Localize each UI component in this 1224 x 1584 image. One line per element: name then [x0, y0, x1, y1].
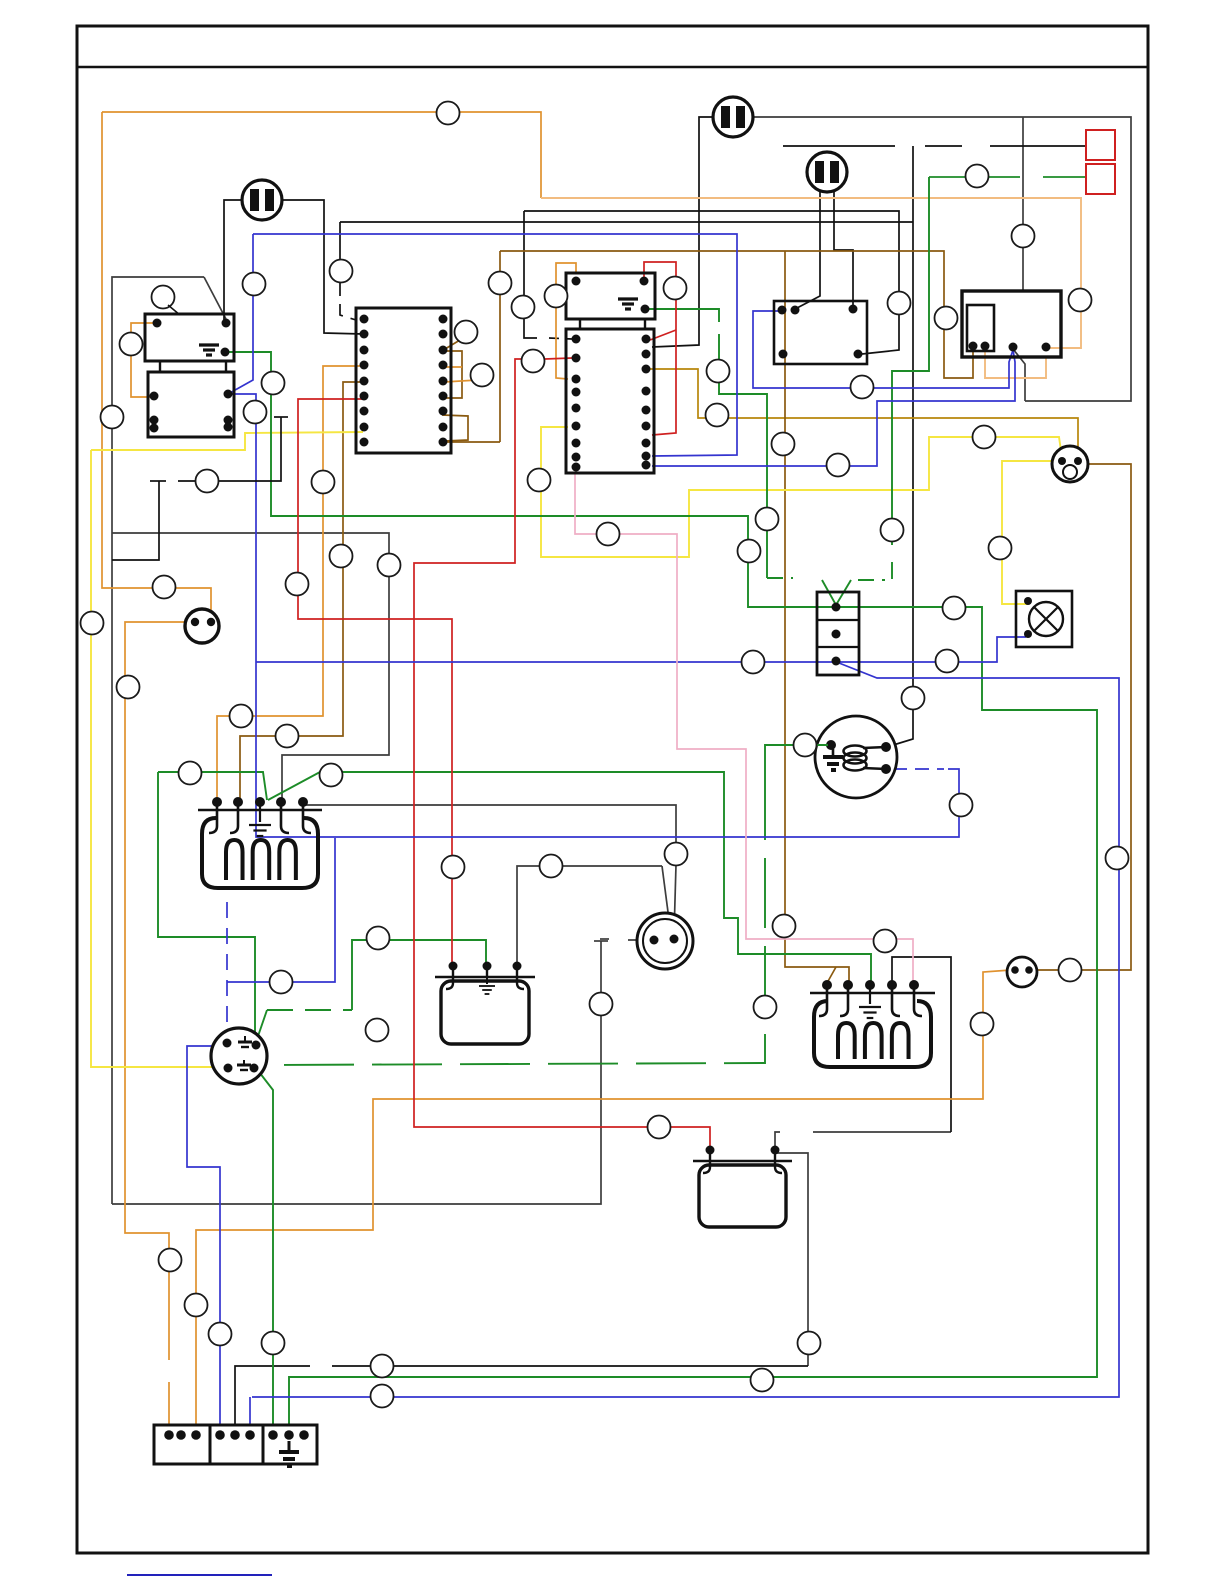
- connector plug P3: [807, 152, 847, 192]
- wire number callout 50: [209, 1323, 232, 1346]
- wire number callout 34: [153, 576, 176, 599]
- relay K4: [774, 301, 867, 364]
- door latch switch box: [693, 1146, 792, 1228]
- wire green dashed funnel left: [767, 577, 793, 579]
- wire black plug P1 left: [224, 200, 247, 320]
- wire number callout 65: [902, 687, 925, 710]
- wire black contact stub: [150, 480, 166, 482]
- wire number callout 36: [117, 676, 140, 699]
- wire blue top loop: [253, 234, 737, 456]
- wire number callout 19: [707, 360, 730, 383]
- wire number callout 42: [540, 855, 563, 878]
- pan W1 ground: [486, 977, 488, 984]
- wire blue motor dashes: [893, 768, 944, 770]
- wire gray sensor upper drop: [1022, 117, 1024, 291]
- wire number callout 55: [751, 1369, 774, 1392]
- wire black motor riser lower: [890, 705, 913, 746]
- wire red relay K3 jumper: [644, 262, 676, 435]
- interlock connector J4: [1052, 446, 1088, 482]
- wire blue connector dashes: [226, 902, 228, 1041]
- wire yellow left feeder: [91, 432, 363, 450]
- wire number callout 61: [851, 376, 874, 399]
- wire orange terminal block 2 riser: [196, 970, 1011, 1434]
- wire orange relay K1-K2 jumper: [131, 323, 157, 397]
- wire red clock feeder: [298, 399, 452, 962]
- wire number callout 60: [366, 1019, 389, 1042]
- wire number callout 54: [798, 1332, 821, 1355]
- wire number callout 30: [989, 537, 1012, 560]
- wire orange clock stub 2: [444, 366, 462, 368]
- wire number callout 51: [262, 1332, 285, 1355]
- wire number callout 15: [489, 272, 512, 295]
- wire gray bake element right run: [303, 805, 676, 843]
- fan connector J2: [637, 913, 693, 969]
- wire number callout 45: [590, 993, 613, 1016]
- wire brown clock bottom jumper: [442, 415, 468, 441]
- wire number callout 58: [936, 650, 959, 673]
- wire number callout 22: [756, 508, 779, 531]
- wire gray dash segment: [813, 1131, 951, 1133]
- wire number callout 52: [371, 1355, 394, 1378]
- wire green relay K3 feed: [646, 309, 719, 322]
- wire green dashed fuse segment: [929, 176, 1020, 178]
- wire brown y442 link: [446, 441, 500, 443]
- wire number callout 4: [664, 277, 687, 300]
- wire number callout 40: [320, 764, 343, 787]
- wire black contact drop: [112, 481, 159, 560]
- wire black motor riser: [912, 146, 914, 692]
- wire green dashed fuse segment2: [1043, 176, 1086, 178]
- wire black dashed contact seg3: [990, 145, 1086, 147]
- wire number callout 7: [1012, 225, 1035, 248]
- wire number callout 9: [120, 333, 143, 356]
- broil element HE2: [810, 981, 935, 1068]
- wire number callout 41: [442, 856, 465, 879]
- wire green bake element branch: [158, 772, 267, 800]
- wire number callout 5: [888, 292, 911, 315]
- wire gray door-switch dashes: [775, 1132, 780, 1152]
- wire black dashes x340: [340, 282, 356, 320]
- wire blue terminal riser: [249, 1397, 251, 1434]
- wire brown drop x500: [499, 251, 501, 442]
- wire number callout 16: [512, 296, 535, 319]
- wire green bake to broil run: [268, 772, 871, 981]
- wire number callout 69: [773, 915, 796, 938]
- wire number callout 37: [230, 705, 253, 728]
- footer link underline: [127, 1574, 272, 1576]
- wire orange terminal stub dashed: [168, 1382, 170, 1434]
- relay K1-K2 links: [159, 361, 161, 372]
- terminal block TB1: [154, 1425, 317, 1464]
- timer module U2: [566, 329, 654, 473]
- wire green dashed funnel right: [858, 579, 885, 581]
- wire number callout 32: [378, 554, 401, 577]
- wire number callout 62: [827, 454, 850, 477]
- selector switch S1 inner: [967, 305, 994, 351]
- clock module U1 (ERC): [356, 308, 451, 453]
- wire orange clock to bake element: [217, 366, 363, 800]
- wire number callout 48: [159, 1249, 182, 1272]
- wire green dash riser tail: [891, 562, 893, 579]
- wire number callout 17: [545, 285, 568, 308]
- wire black plug P3 leg A: [797, 192, 820, 308]
- wire black plug P3 leg B: [834, 192, 853, 305]
- wire black bottom run to terminal: [235, 1366, 310, 1435]
- wire number callout 1: [437, 102, 460, 125]
- wire peach sensor jumper: [985, 351, 1046, 378]
- relay K3: [566, 273, 655, 319]
- thermal limit switch S2: [817, 592, 859, 675]
- wire brown broil jumper diagonal: [827, 967, 836, 983]
- relay K1: [145, 314, 234, 361]
- wire number callout 6: [935, 307, 958, 330]
- wire number callout 68: [754, 996, 777, 1019]
- wire green riser to pan: [352, 940, 486, 1010]
- wire number callout 28: [1106, 847, 1129, 870]
- selector switch S1: [962, 291, 1061, 357]
- relay K2: [148, 372, 234, 437]
- wire number callout 11: [244, 401, 267, 424]
- connector J1 2-pin: [185, 609, 219, 643]
- wire gray main harness loop: [753, 117, 1131, 401]
- wire blue terminal block stub: [187, 1046, 222, 1434]
- wire red timer diag: [650, 330, 676, 340]
- wire number callout 70: [971, 1013, 994, 1036]
- warming drawer pan W1: [435, 962, 535, 1045]
- convection motor M1: [815, 716, 897, 798]
- wire blue relay K4 to sensor: [753, 311, 1013, 388]
- wire black drop x340 to clock: [339, 222, 341, 262]
- wire number callout 35: [81, 612, 104, 635]
- wire number callout 29: [943, 597, 966, 620]
- wire number callout 13: [455, 321, 478, 344]
- timer-relay link: [579, 319, 581, 329]
- wire gray fan left tick: [600, 938, 609, 940]
- wire black run y222: [340, 221, 913, 223]
- broil element ground: [869, 993, 871, 1004]
- wire brown interlock to connector: [1036, 464, 1131, 970]
- wire green motor to connector dashed: [258, 770, 765, 1065]
- wire blue switch diagonal: [252, 663, 1119, 1397]
- connector plug P2: [713, 97, 753, 137]
- connector plug P1: [242, 180, 282, 220]
- wire gray tick x601 top: [594, 940, 608, 942]
- wire number callout 26: [881, 519, 904, 542]
- wire blue timer to sensor: [652, 350, 1015, 466]
- wire number callout 43: [665, 843, 688, 866]
- wire black contact line: [178, 417, 281, 481]
- wire gray door-switch right leg: [777, 1153, 808, 1366]
- wire gray left branch y533: [112, 533, 389, 803]
- wire number callout 24: [597, 523, 620, 546]
- wire number callout 10: [101, 406, 124, 429]
- wire green dashed link: [267, 1009, 352, 1011]
- wire gray fan lead from circle: [674, 865, 676, 935]
- wire gray loop riser to sensor: [1013, 349, 1025, 401]
- wire black plug P1 right to clock: [277, 200, 363, 334]
- wire green funnel V: [822, 580, 851, 605]
- wire number callout 12: [262, 372, 285, 395]
- wire number callout 72: [312, 471, 335, 494]
- wire number callout 47: [286, 573, 309, 596]
- wire number callout 23: [738, 540, 761, 563]
- wire number callout 31: [966, 165, 989, 188]
- wire tan clock diag stub: [445, 340, 460, 349]
- wire number callout 21: [772, 433, 795, 456]
- title band divider line: [77, 66, 1148, 68]
- wire orange connector to terminal drop: [125, 622, 188, 1360]
- wire gray fan left stub: [628, 939, 650, 941]
- wire number callout 64: [528, 469, 551, 492]
- wire number callout 2: [243, 273, 266, 296]
- wire number callout 46: [270, 971, 293, 994]
- wire blue drop to relay K2: [228, 234, 253, 394]
- wire orange left drop: [102, 112, 211, 617]
- wire orange top feeder: [102, 112, 541, 198]
- wire black x524 drop: [524, 211, 537, 338]
- wire number callout 38: [276, 725, 299, 748]
- wire green fuse drop: [892, 177, 929, 545]
- wire orange timer feed: [556, 263, 576, 379]
- wire number callout 8: [1069, 289, 1092, 312]
- wire black contact tick: [274, 416, 288, 418]
- wire green connector diag: [256, 1010, 267, 1042]
- wire number callout 20: [706, 404, 729, 427]
- wire orange clock stub to circle: [444, 380, 478, 382]
- wire blue branch y662: [256, 661, 836, 663]
- callout leader: [168, 305, 180, 315]
- wire number callout 71: [196, 470, 219, 493]
- wire number callout 33: [330, 545, 353, 568]
- wire number callout 49: [185, 1294, 208, 1317]
- wire number callout 18: [522, 350, 545, 373]
- wire number callout 57: [1059, 959, 1082, 982]
- bake element ground: [259, 810, 261, 822]
- wire green left drop: [158, 772, 256, 1044]
- wire green main run: [227, 352, 1097, 1434]
- wire gray pan to fan: [517, 866, 662, 964]
- oven lamp DS1: [1016, 591, 1072, 647]
- wire green dashed drop: [719, 334, 767, 578]
- wire black bottom run segment 2: [332, 1365, 808, 1367]
- wire brown top run to sensor: [500, 251, 973, 378]
- wire black plug P2 to timer: [652, 117, 714, 347]
- wire brown center drop to broil: [785, 251, 849, 983]
- wire red timer long drop: [414, 359, 710, 1149]
- wire number callout 63: [973, 426, 996, 449]
- wire black broil pin riser: [892, 957, 951, 1132]
- wire gray left long drop: [112, 277, 204, 1204]
- wire number callout 14: [471, 364, 494, 387]
- wire black dashed contact to fuse F1: [783, 145, 895, 147]
- wire number callout 44: [367, 927, 390, 950]
- wire blue lamp branch: [838, 637, 1026, 662]
- connector J5 2-pin: [1007, 957, 1037, 987]
- wire blue branch to connector: [227, 838, 335, 982]
- wire gray fan lead diagonal: [662, 866, 671, 935]
- wire number callout 25: [742, 651, 765, 674]
- wire brown clock to bake element: [240, 382, 363, 800]
- wire number callout 39: [179, 762, 202, 785]
- wire tan clock bracket: [444, 351, 462, 398]
- wire yellow lamp branch: [1002, 461, 1062, 604]
- wire number callout 27: [794, 734, 817, 757]
- wire black run y211: [524, 211, 899, 354]
- wire green motor stub: [765, 745, 831, 770]
- wire red timer stub: [545, 358, 572, 359]
- wire number callout 56: [648, 1116, 671, 1139]
- wire yellow timer to lamp run: [541, 427, 1062, 557]
- wire number callout 53: [371, 1385, 394, 1408]
- wire peach feeder to sensor: [541, 198, 1081, 348]
- bake element HE1: [198, 798, 322, 889]
- wire number callout 3: [330, 260, 353, 283]
- wire gray bottom run: [112, 941, 601, 1204]
- wire blue relay K2 down: [228, 394, 959, 837]
- wire number callout 66: [950, 794, 973, 817]
- fuse F2: [1086, 164, 1115, 194]
- wire black dash to timer pin: [549, 338, 572, 339]
- wire number callout 59: [152, 286, 175, 309]
- wire pink timer to broil: [575, 473, 913, 981]
- wire dark-gold timer to interlock: [648, 369, 1078, 458]
- wire gray diagonal into relay K1 pin: [204, 277, 226, 319]
- wire green connector drop to terminal: [256, 1068, 273, 1434]
- fuse F1: [1086, 130, 1115, 160]
- connector J3 4-pin: [211, 1028, 267, 1084]
- wire number callout 67: [874, 930, 897, 953]
- wire yellow left drop: [91, 450, 224, 1067]
- wire black dashed contact seg2: [925, 145, 962, 147]
